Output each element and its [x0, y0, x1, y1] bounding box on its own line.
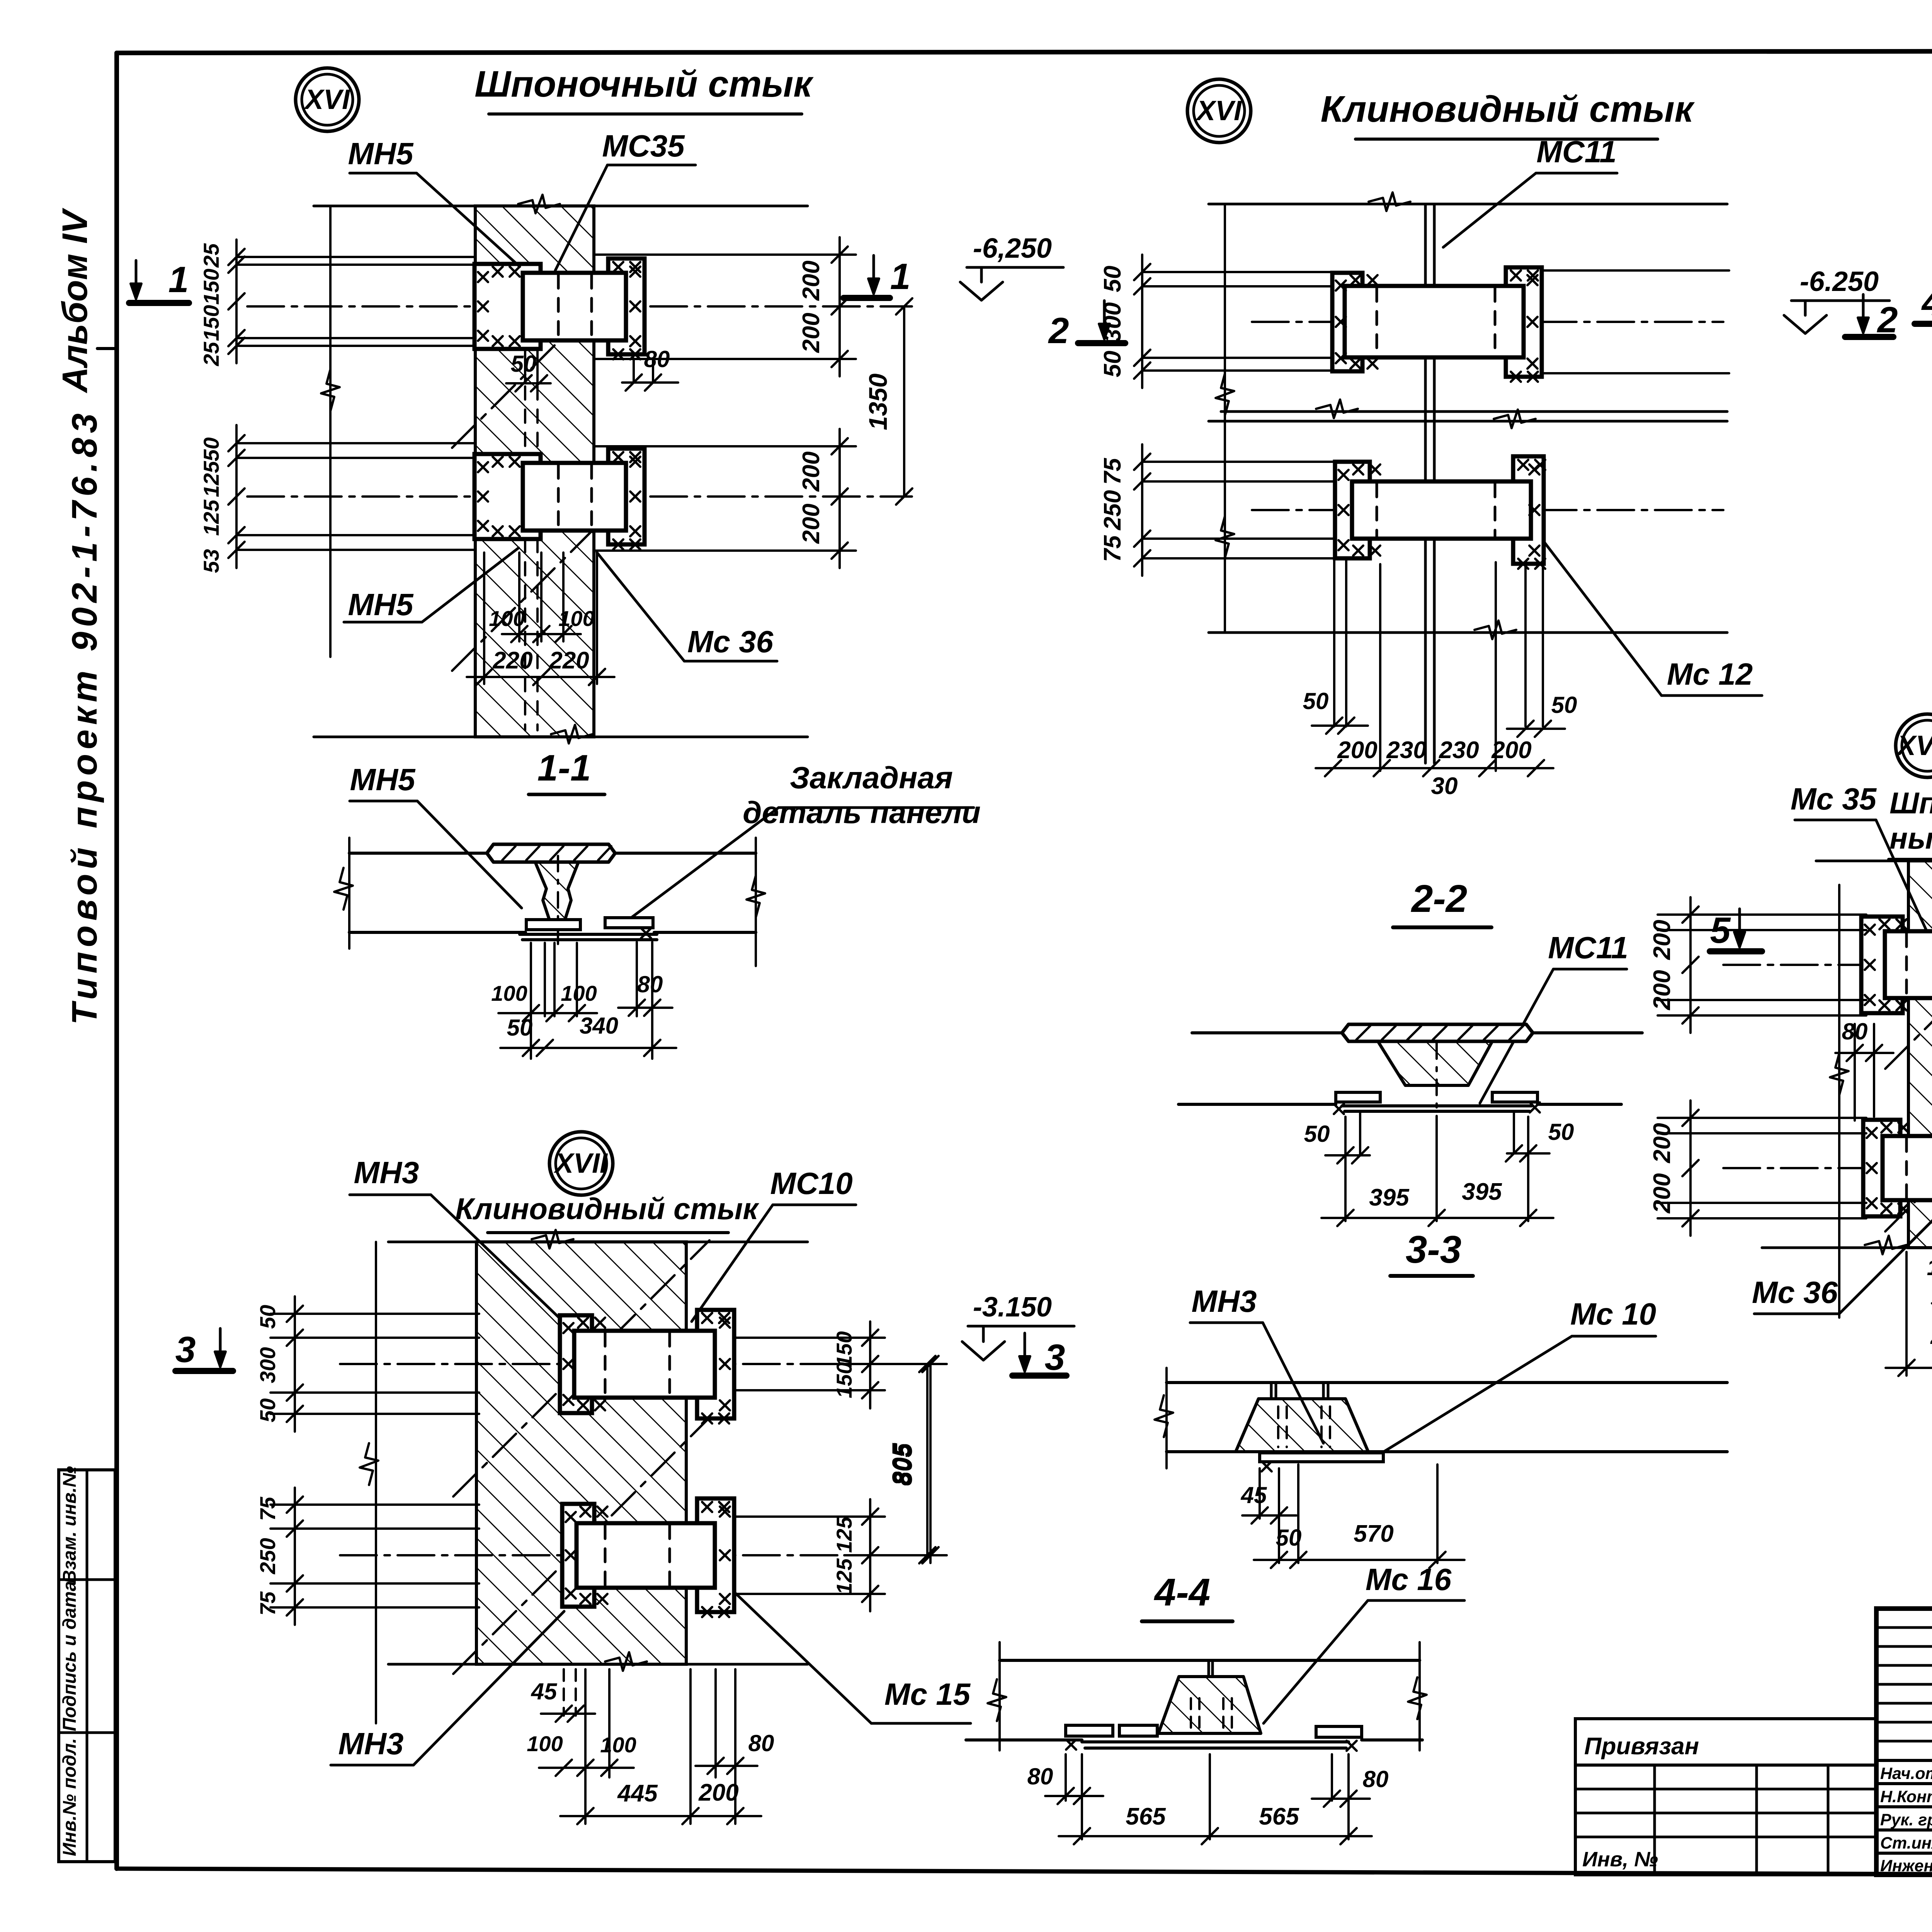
svg-text:1: 1	[890, 256, 911, 297]
svg-text:150: 150	[199, 305, 223, 341]
title block TP 902-1-76.83-Kzh with signatures and stamp	[1876, 1609, 1932, 1875]
sheet frame and margins	[117, 51, 1932, 53]
svg-text:150: 150	[832, 1331, 856, 1367]
svg-text:45: 45	[1241, 1482, 1267, 1508]
svg-text:395: 395	[1462, 1179, 1502, 1205]
svg-text:200: 200	[798, 503, 825, 544]
svg-text:50: 50	[1303, 688, 1329, 714]
svg-text:2: 2	[1877, 299, 1898, 340]
svg-text:Ст.инж: Ст.инж	[1880, 1834, 1932, 1852]
svg-text:565: 565	[1126, 1803, 1166, 1830]
svg-text:Привязан: Привязан	[1584, 1733, 1699, 1760]
svg-text:Мс 36: Мс 36	[687, 624, 774, 659]
detail XVIII keyed joint (middle-right): wall, plates Mc35/Mc36/MH5, dimensions	[1896, 714, 1932, 777]
svg-text:25: 25	[199, 342, 223, 366]
svg-text:МН3: МН3	[1192, 1284, 1257, 1318]
svg-text:2: 2	[1048, 310, 1069, 351]
svg-text:Клиновидный стык: Клиновидный стык	[455, 1192, 759, 1226]
svg-text:200: 200	[798, 313, 825, 353]
svg-text:75: 75	[255, 1591, 280, 1616]
svg-text:125: 125	[832, 1516, 856, 1553]
svg-text:Нач.отд.: Нач.отд.	[1880, 1764, 1932, 1783]
svg-text:200: 200	[1649, 1123, 1675, 1163]
svg-text:75: 75	[1099, 457, 1126, 485]
svg-text:50: 50	[255, 1305, 280, 1329]
svg-text:Взам. инв.№: Взам. инв.№	[60, 1466, 80, 1583]
svg-text:Мс 16: Мс 16	[1366, 1562, 1452, 1597]
svg-text:Шпоночный стык: Шпоночный стык	[474, 63, 814, 105]
svg-text:125: 125	[832, 1558, 856, 1594]
svg-text:200: 200	[1649, 970, 1675, 1010]
svg-text:125: 125	[199, 499, 223, 536]
svg-text:340: 340	[580, 1013, 618, 1039]
svg-text:75: 75	[255, 1497, 280, 1521]
svg-text:50: 50	[255, 1398, 280, 1422]
svg-text:200: 200	[1649, 920, 1675, 960]
svg-text:деталь панели: деталь панели	[743, 795, 981, 830]
svg-text:XVII: XVII	[553, 1148, 608, 1179]
svg-text:МН3: МН3	[354, 1155, 419, 1190]
svg-text:1350: 1350	[864, 373, 892, 430]
svg-text:80: 80	[1027, 1764, 1053, 1789]
svg-text:100: 100	[491, 981, 527, 1005]
svg-text:МН5: МН5	[348, 136, 414, 171]
svg-text:2-2: 2-2	[1411, 877, 1468, 920]
svg-text:Закладная: Закладная	[790, 760, 953, 795]
svg-text:-3.150: -3.150	[973, 1292, 1052, 1323]
svg-text:200: 200	[1491, 737, 1531, 764]
detail XVI wedge joint (top-middle): seam, plates MC11/Mc12, dimensions	[1187, 79, 1251, 143]
svg-text:200: 200	[1337, 737, 1377, 764]
svg-text:3: 3	[175, 1329, 196, 1370]
svg-text:МН5: МН5	[348, 587, 414, 622]
svg-text:570: 570	[1354, 1520, 1393, 1547]
svg-text:МС11: МС11	[1536, 134, 1616, 169]
svg-text:Подпись и дата: Подпись и дата	[60, 1581, 80, 1731]
svg-text:1-1: 1-1	[537, 747, 591, 789]
svg-text:Рук. гр.: Рук. гр.	[1880, 1811, 1932, 1829]
svg-text:50: 50	[199, 437, 223, 461]
svg-text:3: 3	[1045, 1337, 1065, 1378]
svg-text:220: 220	[549, 647, 589, 674]
svg-text:МС10: МС10	[770, 1166, 852, 1201]
svg-text:250: 250	[255, 1538, 280, 1574]
svg-text:220: 220	[492, 647, 532, 674]
svg-text:МН5: МН5	[350, 762, 416, 797]
svg-text:3-3: 3-3	[1406, 1228, 1462, 1271]
svg-text:230: 230	[1386, 737, 1426, 764]
svg-text:805: 805	[887, 1443, 915, 1486]
svg-text:395: 395	[1369, 1184, 1410, 1211]
svg-text:Альбом IV: Альбом IV	[55, 207, 95, 393]
svg-text:100: 100	[1927, 1255, 1932, 1280]
svg-text:50: 50	[1099, 266, 1126, 293]
svg-text:5: 5	[1710, 910, 1731, 951]
section markers 3/3 and elevation -3.150 for detail XVII	[175, 1368, 233, 1374]
svg-text:4-4: 4-4	[1154, 1571, 1211, 1614]
svg-text:25: 25	[199, 243, 223, 268]
svg-text:200: 200	[1649, 1173, 1675, 1213]
svg-text:80: 80	[1363, 1766, 1389, 1792]
svg-text:50: 50	[507, 1015, 533, 1041]
svg-text:250: 250	[1099, 490, 1126, 530]
svg-text:75: 75	[1099, 535, 1126, 562]
svg-text:200: 200	[698, 1779, 738, 1806]
svg-text:50: 50	[1548, 1119, 1574, 1145]
svg-text:1: 1	[168, 259, 189, 300]
svg-text:50: 50	[1304, 1121, 1330, 1147]
svg-text:Мс 12: Мс 12	[1667, 657, 1753, 691]
svg-text:Мс 36: Мс 36	[1752, 1275, 1838, 1310]
svg-text:XVI: XVI	[303, 84, 350, 115]
svg-text:100: 100	[600, 1733, 636, 1757]
svg-text:200: 200	[798, 260, 825, 301]
svg-text:XVI: XVI	[1195, 95, 1242, 126]
svg-text:Инв.№ подл.: Инв.№ подл.	[60, 1738, 80, 1856]
svg-text:100: 100	[527, 1731, 563, 1756]
svg-text:30: 30	[1431, 773, 1458, 799]
svg-text:Типовой проект 902-1-76.83: Типовой проект 902-1-76.83	[65, 409, 104, 1025]
svg-text:150: 150	[832, 1362, 856, 1398]
svg-text:Шпоноч-: Шпоноч-	[1889, 786, 1932, 820]
svg-text:80: 80	[637, 971, 663, 997]
svg-text:50: 50	[1099, 351, 1126, 378]
svg-text:125: 125	[199, 461, 223, 497]
svg-text:230: 230	[1439, 737, 1479, 764]
svg-text:100: 100	[489, 606, 525, 631]
svg-text:-6,250: -6,250	[973, 233, 1052, 264]
svg-text:565: 565	[1259, 1803, 1299, 1830]
svg-text:280: 280	[1930, 1323, 1932, 1349]
svg-text:МС11: МС11	[1548, 930, 1628, 965]
svg-text:Клиновидный стык: Клиновидный стык	[1321, 88, 1695, 130]
svg-text:100: 100	[561, 981, 597, 1005]
svg-text:200: 200	[798, 451, 825, 492]
detail XVII wedge joint (bottom-left): wall, plates MH3/MC10/Mc15, dimensions	[549, 1132, 613, 1195]
svg-text:МН3: МН3	[338, 1726, 404, 1761]
svg-text:4: 4	[1921, 282, 1932, 323]
svg-text:Мс 35: Мс 35	[1791, 782, 1877, 816]
svg-text:445: 445	[617, 1780, 658, 1807]
detail XVI keyed joint (top-left): wall, embedded plates MH5/MC35/Mc36, dimensions	[296, 68, 359, 131]
svg-text:Н.Контр: Н.Контр	[1880, 1787, 1932, 1806]
svg-text:300: 300	[255, 1347, 280, 1383]
svg-text:80: 80	[748, 1730, 774, 1756]
svg-text:80: 80	[644, 346, 670, 372]
svg-text:50: 50	[1551, 692, 1577, 718]
svg-text:100: 100	[558, 606, 594, 631]
svg-text:Мс 15: Мс 15	[884, 1677, 971, 1711]
svg-text:50: 50	[1276, 1525, 1302, 1551]
svg-text:53: 53	[199, 549, 223, 573]
svg-text:XVIII: XVIII	[1896, 730, 1932, 761]
svg-text:50: 50	[511, 351, 537, 377]
svg-text:45: 45	[531, 1679, 558, 1704]
section markers 2/2/4 and elevation -6.250 between top details	[1078, 340, 1125, 346]
svg-text:ный стык: ный стык	[1889, 821, 1932, 855]
svg-text:150: 150	[199, 269, 223, 304]
svg-text:Инжен.: Инжен.	[1880, 1857, 1932, 1875]
svg-text:МС35: МС35	[602, 129, 685, 163]
svg-text:-6.250: -6.250	[1800, 266, 1879, 297]
svg-text:Мс 10: Мс 10	[1570, 1297, 1656, 1331]
svg-text:Инв, №: Инв, №	[1582, 1848, 1658, 1871]
